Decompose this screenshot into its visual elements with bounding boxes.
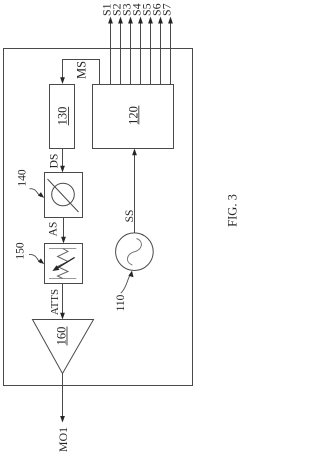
svg-text:ATTS: ATTS bbox=[49, 289, 61, 315]
svg-text:150: 150 bbox=[15, 242, 27, 260]
svg-text:MS: MS bbox=[75, 61, 89, 79]
svg-text:160: 160 bbox=[55, 327, 69, 346]
svg-text:FIG. 3: FIG. 3 bbox=[226, 194, 240, 227]
svg-text:AS: AS bbox=[48, 222, 60, 237]
svg-text:DS: DS bbox=[49, 154, 61, 169]
svg-text:S7: S7 bbox=[160, 3, 174, 16]
svg-text:MO1: MO1 bbox=[56, 427, 70, 452]
svg-text:120: 120 bbox=[126, 106, 140, 125]
svg-text:SS: SS bbox=[124, 210, 136, 223]
svg-text:140: 140 bbox=[17, 169, 29, 187]
svg-text:130: 130 bbox=[56, 107, 70, 126]
svg-text:110: 110 bbox=[115, 294, 127, 311]
